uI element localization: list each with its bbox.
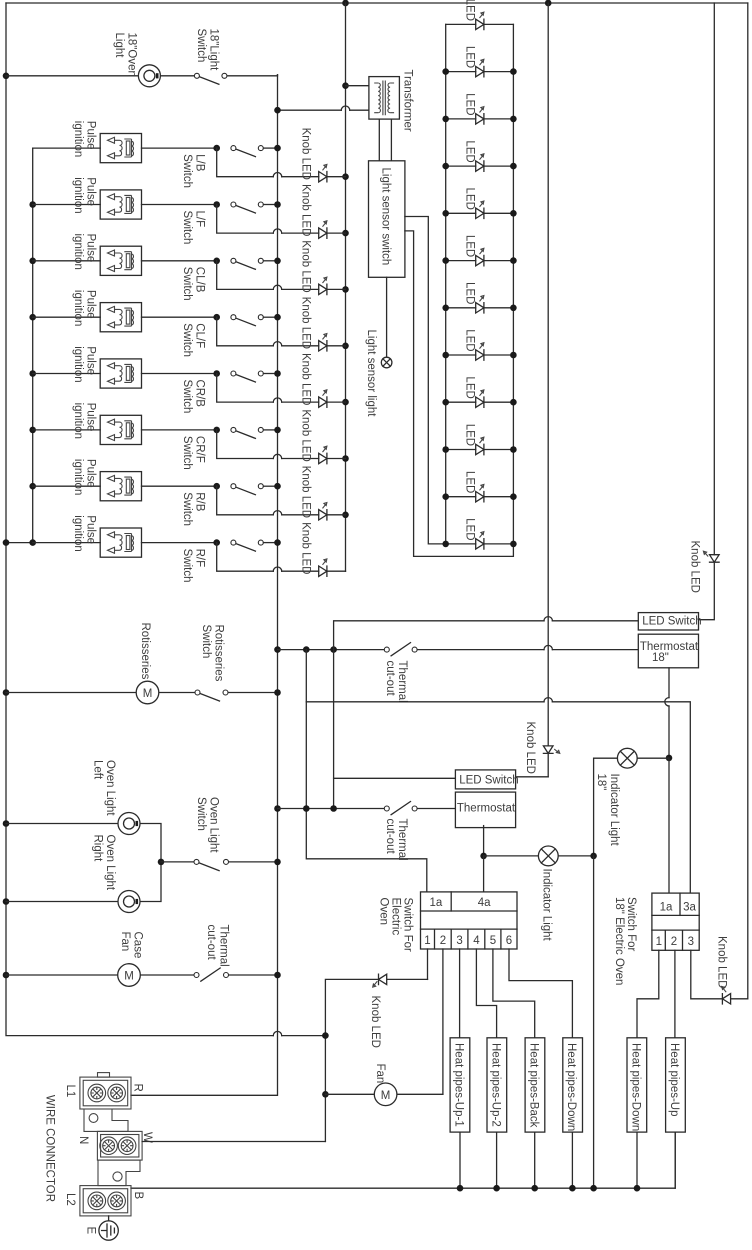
terminal block L2 — [80, 1186, 131, 1216]
svg-text:3: 3 — [456, 935, 462, 947]
wire oven light switch row — [161, 861, 278, 863]
LED row 1 — [446, 0, 514, 30]
LED row 4 — [446, 140, 514, 171]
wire far-left bus L1 feed — [6, 3, 273, 1036]
svg-text:3a: 3a — [683, 902, 696, 914]
node oven lights to switch — [158, 859, 165, 866]
wire 4a feed — [483, 856, 485, 892]
svg-text:18": 18" — [595, 774, 607, 791]
wire 18in oven light row — [6, 75, 278, 76]
wire transformer primary top — [346, 85, 369, 87]
wire N to neutral bus — [142, 1141, 325, 1143]
heat pipes back box — [525, 1038, 545, 1132]
knob LED on bus 548 — [543, 746, 559, 754]
svg-text:Thermostat: Thermostat — [457, 803, 516, 815]
svg-text:Fan: Fan — [374, 1064, 386, 1084]
LED row 9 — [446, 376, 514, 407]
wire mid LED switch right to bus 548 — [517, 776, 548, 778]
svg-text:4a: 4a — [478, 897, 491, 909]
wire heat pipes bottoms to bottom bus — [460, 1132, 675, 1188]
svg-text:CR/F: CR/F — [194, 436, 206, 463]
wire terminal 4 to heat pipes up-2 — [476, 949, 496, 1038]
svg-text:Heat pipes-Back: Heat pipes-Back — [527, 1043, 539, 1128]
node knob bus to transformer — [342, 82, 349, 89]
svg-text:Oven Light: Oven Light — [104, 760, 116, 816]
svg-text:Switch: Switch — [181, 492, 193, 526]
svg-text:CL/F: CL/F — [194, 323, 206, 348]
switch thermal cut-out mid — [384, 802, 417, 815]
wire bus 593 down — [593, 856, 595, 1188]
svg-text:Heat pipes-Up-1: Heat pipes-Up-1 — [453, 1043, 465, 1127]
svg-text:Heat pipes-Up: Heat pipes-Up — [668, 1043, 680, 1117]
thermostat box mid — [455, 792, 515, 828]
node top rail to knob bus — [342, 0, 349, 6]
connector switch for 18in electric oven — [652, 893, 699, 950]
svg-text:5: 5 — [490, 935, 496, 947]
label CL/F switch — [181, 323, 206, 357]
switch rotisseries switch — [195, 690, 228, 701]
wire thermal cutout 18in row — [278, 649, 639, 651]
wire pulse ignition feeder bus — [6, 148, 33, 542]
pulse ignition row 3 with CL/B switch and knob LED — [33, 234, 346, 295]
svg-text:Switch: Switch — [181, 211, 193, 245]
svg-text:Fan: Fan — [119, 932, 131, 952]
svg-text:WIRE CONNECTOR: WIRE CONNECTOR — [44, 1095, 56, 1202]
pulse ignition row 7 with R/B switch and knob LED — [33, 459, 346, 520]
wire main mid bus R line — [131, 75, 278, 1096]
wire terminal 1 to knob LED row — [427, 949, 429, 979]
wire branch down mid vertical 306 to 3a feed — [306, 650, 427, 892]
LED row 11 — [446, 471, 514, 502]
wire thermostat 18in bottom with hop — [668, 668, 670, 698]
lamp 18in oven light — [138, 65, 160, 87]
wire far-right bus — [731, 3, 748, 999]
wire hop over bus 277 on neutral run — [273, 1031, 281, 1035]
svg-text:4: 4 — [473, 935, 480, 947]
label L/F switch — [181, 211, 206, 245]
svg-text:Switch: Switch — [200, 625, 212, 659]
knob LED on bus 714 — [703, 551, 719, 562]
LED row 6 — [446, 235, 514, 266]
svg-text:Light sensor switch: Light sensor switch — [379, 168, 391, 266]
svg-text:L/F: L/F — [194, 211, 206, 228]
motor fan — [374, 1083, 397, 1106]
svg-text:Thermal: Thermal — [396, 661, 408, 703]
svg-text:Knob LED: Knob LED — [716, 936, 728, 988]
pulse ignition row 2 with L/F switch and knob LED — [33, 177, 346, 238]
svg-text:Oven Light: Oven Light — [104, 835, 116, 891]
svg-text:CL/B: CL/B — [194, 267, 206, 293]
thermostat 18in box — [638, 634, 698, 668]
svg-text:M: M — [381, 1090, 391, 1102]
svg-text:R/F: R/F — [194, 549, 206, 568]
wire right terminal 2 to heat pipes up — [674, 950, 676, 1038]
svg-text:18"Light: 18"Light — [208, 29, 220, 72]
svg-text:Switch For: Switch For — [625, 897, 637, 951]
bracket between L1 and N — [84, 1109, 128, 1131]
svg-text:Case: Case — [132, 932, 144, 959]
terminal block N — [97, 1131, 142, 1160]
svg-text:Knob LED: Knob LED — [369, 996, 381, 1048]
lamp light sensor light — [381, 357, 392, 368]
svg-text:Indicator Light: Indicator Light — [541, 869, 553, 942]
ground symbol — [99, 1221, 118, 1240]
pulse ignition row 4 with CL/F switch and knob LED — [33, 290, 346, 351]
wire mid thermostat bottom — [483, 826, 485, 856]
wire oven light right row — [6, 862, 161, 902]
svg-text:Switch: Switch — [181, 154, 193, 188]
light sensor switch box — [369, 161, 405, 277]
svg-text:Heat pipes-Down: Heat pipes-Down — [565, 1043, 577, 1131]
svg-text:Switch: Switch — [195, 797, 207, 831]
wire fan row — [325, 1093, 443, 1095]
svg-text:Light: Light — [113, 33, 125, 59]
svg-text:B: B — [132, 1192, 144, 1200]
svg-text:M: M — [124, 971, 134, 983]
lamp oven light right — [118, 891, 140, 913]
LED switch box 18in — [638, 613, 698, 630]
label CL/B switch — [181, 267, 206, 301]
wire knob LED right bus — [345, 3, 347, 571]
svg-text:L1: L1 — [64, 1085, 76, 1098]
wire transformer secondary pins — [379, 119, 391, 161]
wire case fan row — [6, 974, 278, 976]
node bus277 thermal cutout row — [274, 646, 281, 653]
wire LED chain right bus — [512, 24, 514, 544]
svg-text:Switch: Switch — [181, 267, 193, 301]
wire oven light left row — [6, 824, 161, 862]
node left bus 18in light row — [3, 73, 10, 80]
pulse ignition row 1 with L/B switch and knob LED — [33, 121, 346, 182]
svg-text:Thermal: Thermal — [396, 819, 408, 861]
LED row 7 — [446, 282, 514, 313]
wire rotisseries row — [6, 692, 278, 694]
heat pipes down box — [563, 1038, 583, 1132]
svg-text:2: 2 — [440, 935, 446, 947]
svg-text:1a: 1a — [430, 897, 443, 909]
node bus277 mid thermal row — [274, 805, 281, 812]
svg-text:Electric: Electric — [390, 898, 402, 936]
wire vertical 333 to mid LED switch — [333, 650, 335, 809]
heat pipes up-1 box — [450, 1038, 470, 1132]
svg-text:Thermostat: Thermostat — [640, 641, 699, 653]
switch oven light switch — [194, 859, 229, 870]
terminal block L1 — [80, 1073, 131, 1109]
svg-text:R: R — [131, 1084, 143, 1092]
LED switch box mid — [455, 770, 515, 789]
svg-text:Switch: Switch — [181, 323, 193, 357]
svg-text:1: 1 — [656, 936, 662, 948]
svg-text:6: 6 — [506, 935, 512, 947]
svg-text:Heat pipes-Down: Heat pipes-Down — [629, 1043, 641, 1131]
svg-text:2: 2 — [671, 936, 677, 948]
knob LED far right — [722, 986, 731, 1004]
label CR/B switch — [181, 380, 206, 414]
transformer — [369, 77, 400, 120]
wire ground stub — [108, 1216, 110, 1221]
label CR/F switch — [181, 436, 206, 470]
node left bus oven light right — [3, 898, 10, 905]
LED row 8 — [446, 329, 514, 360]
indicator light mid — [538, 846, 558, 866]
svg-text:Knob LED: Knob LED — [524, 722, 536, 774]
wire indicator row — [484, 855, 594, 857]
label R/F switch — [181, 549, 206, 583]
nodes knob LED rows on bus 345 — [342, 173, 349, 180]
motor rotisseries — [136, 681, 159, 704]
lamp oven light left — [118, 813, 140, 835]
bracket between N and L2 — [98, 1160, 140, 1186]
node top rail to LED-switch bus — [545, 0, 552, 6]
svg-text:Switch: Switch — [181, 380, 193, 414]
svg-text:1a: 1a — [660, 902, 673, 914]
svg-text:Left: Left — [92, 760, 104, 780]
LED row 10 — [446, 424, 514, 455]
label L/B switch — [181, 154, 206, 188]
switch thermal cut-out 18in — [384, 643, 417, 656]
pulse ignition row 5 with CR/B switch and knob LED — [33, 346, 346, 407]
svg-text:Switch: Switch — [181, 436, 193, 470]
pulse ignition row 6 with CR/F switch and knob LED — [33, 403, 346, 464]
heat pipes up 18in box — [666, 1038, 686, 1132]
wire terminal 2 down to fan row — [442, 949, 444, 1094]
wire sensor output A to LED chain row 12 — [405, 217, 446, 544]
connector switch for electric oven — [421, 892, 518, 949]
wire terminal 3 to heat pipes up-1 — [459, 949, 461, 1038]
svg-text:1: 1 — [424, 935, 430, 947]
svg-text:LED Switch: LED Switch — [459, 775, 518, 787]
svg-text:L2: L2 — [64, 1193, 76, 1206]
svg-text:M: M — [143, 688, 153, 700]
svg-text:3: 3 — [688, 936, 694, 948]
node left bus rotisseries — [3, 689, 10, 696]
LED row 5 — [446, 188, 514, 219]
svg-text:Oven: Oven — [378, 898, 390, 926]
wire sensor to light sensor light — [386, 277, 388, 357]
svg-text:Heat pipes-Up-2: Heat pipes-Up-2 — [489, 1043, 501, 1127]
wire branch to 18in LED switch — [334, 621, 639, 650]
svg-text:Oven Light: Oven Light — [208, 797, 220, 853]
wire terminal 6 to heat pipes down — [509, 949, 572, 1038]
LED row 12 — [446, 518, 514, 549]
svg-text:Switch: Switch — [195, 29, 207, 63]
svg-text:Switch For: Switch For — [402, 898, 414, 952]
wire mid thermal cutout row — [278, 808, 456, 810]
label R/B switch — [181, 492, 206, 526]
svg-text:cut-out: cut-out — [384, 661, 396, 697]
svg-text:Transformer: Transformer — [402, 70, 414, 132]
node left bus oven light left — [3, 820, 10, 827]
LED row 2 — [446, 46, 514, 77]
heat pipes up-2 box — [487, 1038, 507, 1132]
switch thermal cut-out case fan — [194, 968, 229, 981]
wire terminal 5 to heat pipes back — [493, 949, 535, 1038]
indicator light 18in — [594, 748, 669, 856]
motor case fan — [118, 964, 141, 987]
wire right terminal 3 to knob LED and far-right bus — [691, 950, 722, 999]
svg-text:L/B: L/B — [194, 154, 206, 172]
svg-text:Light sensor light: Light sensor light — [365, 330, 377, 418]
svg-text:Rotisseries: Rotisseries — [139, 623, 151, 680]
svg-text:CR/B: CR/B — [194, 380, 206, 408]
svg-text:Rotisseries: Rotisseries — [213, 625, 225, 682]
svg-text:Indicator Light: Indicator Light — [608, 774, 620, 847]
svg-text:cut-out: cut-out — [205, 925, 217, 961]
node case fan row — [3, 972, 10, 979]
svg-text:Knob LED: Knob LED — [689, 541, 701, 593]
svg-text:cut-out: cut-out — [384, 819, 396, 855]
LED row 3 — [446, 93, 514, 124]
wire transformer primary bottom with hop over knob bus — [278, 109, 342, 111]
svg-text:E: E — [84, 1227, 96, 1235]
svg-text:R/B: R/B — [194, 492, 206, 512]
heat pipes down 18in box — [627, 1038, 647, 1132]
pulse ignition row 8 with R/F switch and knob LED — [33, 515, 346, 576]
svg-text:N: N — [77, 1136, 89, 1144]
svg-text:Thermal: Thermal — [218, 925, 230, 967]
wire LED-switch feed bus with inline knob LED — [517, 3, 548, 777]
svg-text:Right: Right — [92, 835, 104, 863]
svg-text:Switch: Switch — [181, 549, 193, 583]
svg-text:18": 18" — [652, 652, 669, 664]
wire right terminal 1 to heat pipes down — [637, 950, 659, 1038]
switch 18in light switch — [194, 73, 227, 84]
node neutral to fan — [322, 1032, 329, 1039]
wire knob LED fan row — [325, 979, 427, 1141]
wire bottom bus B — [131, 1132, 675, 1188]
wire sensor output B to LED chain bottom wrap — [405, 231, 514, 557]
wire top rail — [6, 2, 748, 4]
wire 18in knob LED bus — [699, 3, 714, 620]
svg-text:18" Electric Oven: 18" Electric Oven — [613, 897, 625, 985]
wire LED chain left bus — [445, 24, 447, 544]
knob LED fan — [373, 974, 387, 987]
svg-text:18"Oven: 18"Oven — [126, 33, 138, 77]
svg-text:LED Switch: LED Switch — [642, 615, 701, 627]
